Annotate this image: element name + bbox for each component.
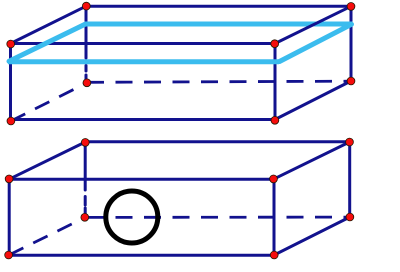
wire: top box back-left vertical edge (lower dashes) <box>85 66 88 72</box>
wire: top box right depth edge (drawn over cyan) <box>275 6 351 43</box>
wire: top box hidden left-bottom depth edge (dashed) <box>11 83 87 121</box>
node: top box front-top-left vertex <box>7 40 15 48</box>
node: bottom box back-top-right vertex <box>346 138 354 146</box>
wire: top box back-right vertical edge <box>350 6 353 81</box>
wire: bottom box front-bottom edge <box>9 254 274 257</box>
node: bottom box back-top-left vertex <box>81 139 89 147</box>
wire: bottom box back-left vertical edge (upper solid part) <box>84 142 87 190</box>
node: bottom box front-top-right vertex <box>270 175 278 183</box>
bottom prism: solid dark edges <box>9 142 350 255</box>
wire: top box back-top edge <box>86 5 351 8</box>
top prism: solid dark edges <box>11 6 352 120</box>
top prism: hidden dashed edges <box>11 81 348 121</box>
wire: cyan top-face left edge <box>9 24 85 61</box>
node: bottom box back-bottom-right vertex <box>346 213 354 221</box>
bottom prism: hidden dashed edges <box>9 217 347 255</box>
node: top box back-top-left vertex <box>82 2 90 10</box>
wire: top box bottom-right depth edge <box>275 81 351 120</box>
wire: bottom box bottom-right depth edge <box>274 217 350 255</box>
wire: top box front-top edge <box>11 42 276 45</box>
wire: bottom box back-left vertical edge (lower dashes) <box>84 197 87 206</box>
wire: bottom box front-top edge <box>9 178 273 181</box>
wire: bottom box hidden back-bottom edge (dashed) <box>87 216 347 219</box>
wire: bottom box left depth edge <box>9 142 85 179</box>
node: top box front-bottom-left vertex <box>7 117 15 125</box>
wire: top box front-right vertical edge <box>274 44 277 120</box>
node: top box back-top-right vertex <box>347 3 355 11</box>
wire: bottom box hidden left-bottom depth edge (dashed) <box>9 218 85 255</box>
node: bottom box front-bottom-right vertex <box>270 251 278 259</box>
wire: top box hidden back-bottom edge (dashed) <box>87 81 348 82</box>
wire: top box front-bottom edge <box>11 118 276 121</box>
node: top box front-top-right vertex <box>271 40 279 48</box>
wire: bottom box front-left vertical edge <box>8 179 11 255</box>
node: top box front-bottom-right vertex <box>271 116 279 124</box>
node: bottom box front-top-left vertex <box>5 175 13 183</box>
node: bottom box front-bottom-left vertex <box>5 251 13 259</box>
wire: cyan top-face front edge <box>8 59 279 64</box>
node: top box back-bottom-left vertex <box>83 79 91 87</box>
wire: top box left depth edge <box>11 6 87 43</box>
node: top box back-bottom-right vertex <box>347 77 355 85</box>
wire: cyan top-face back edge <box>85 22 353 27</box>
highlighted top face (cyan parallelogram) <box>8 24 353 62</box>
wire: bottom box right depth edge <box>274 142 350 179</box>
wire: bottom box back-right vertical edge <box>348 142 351 217</box>
black highlight circle on bottom box <box>106 191 158 243</box>
node: bottom box back-bottom-left vertex <box>81 213 89 221</box>
wire: bottom box front-right vertical edge <box>273 179 276 255</box>
wire: bottom box back-top edge <box>85 140 349 143</box>
wire: top box front-left vertical edge <box>9 44 12 121</box>
wire: cyan top-face right edge <box>280 24 352 61</box>
wire: top box back-left vertical edge (upper solid part) <box>85 6 88 58</box>
